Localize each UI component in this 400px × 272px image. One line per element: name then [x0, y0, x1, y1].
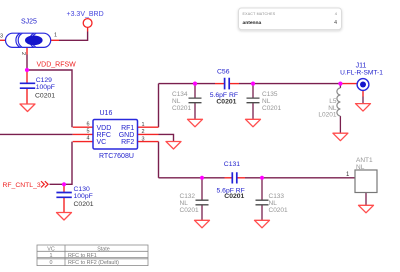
pin stub +3.3V_BRD	[87, 27, 89, 31]
svg-text:1: 1	[50, 253, 53, 259]
svg-text:C133: C133	[269, 193, 285, 200]
svg-text:6: 6	[86, 121, 89, 127]
svg-text:NL: NL	[262, 98, 271, 105]
wire: U16 pin2 GND to ground	[159, 134, 174, 141]
svg-text:RF_CNTL_3: RF_CNTL_3	[3, 182, 41, 189]
svg-text:1: 1	[54, 33, 57, 39]
svg-text:State: State	[97, 247, 110, 253]
connector J11 U.FL-R-SMT-1	[340, 62, 383, 90]
svg-text:3: 3	[142, 136, 145, 142]
wire: VDD_RFSW net to U16 pin6	[27, 70, 72, 127]
wire: U16 pin4 VC down and left to RF_CNTL_3	[50, 142, 73, 185]
pin stub J11 shield	[362, 91, 364, 97]
svg-text:VC: VC	[47, 247, 55, 253]
svg-text:C0201: C0201	[262, 105, 282, 112]
wire: RFC net from left edge to U16 pin5	[0, 133, 73, 135]
wire: U16 pin1 riser to top rail	[158, 84, 160, 128]
svg-text:RF2: RF2	[121, 139, 134, 146]
svg-text:RFC to RF2 (Default): RFC to RF2 (Default)	[68, 260, 119, 266]
pin stub U16 pin2	[138, 133, 159, 135]
svg-text:4: 4	[334, 20, 337, 26]
svg-text:C131: C131	[224, 161, 240, 168]
wire: U16 pin3 riser to bottom rail	[158, 142, 160, 178]
ground below C130	[57, 213, 72, 221]
pin stub C130 bottom	[63, 198, 65, 213]
svg-text:VDD: VDD	[97, 125, 112, 132]
svg-text:U16: U16	[100, 110, 113, 117]
svg-text:VDD_RFSW: VDD_RFSW	[37, 62, 77, 69]
svg-text:C0201: C0201	[74, 201, 94, 208]
capacitor C135 (NL)	[247, 91, 282, 112]
wire: C134 leads	[194, 84, 196, 119]
ground below C134	[188, 119, 203, 127]
svg-text:VC: VC	[97, 139, 107, 146]
svg-text:RF1: RF1	[121, 125, 134, 132]
pin stub C130 top	[63, 184, 65, 192]
svg-text:4: 4	[86, 136, 89, 142]
pin stub U16 pin6	[73, 126, 94, 128]
svg-text:0: 0	[50, 260, 53, 266]
pin stub SJ25 pin3	[0, 39, 6, 41]
ground below J11	[356, 104, 371, 112]
ground below L5	[333, 133, 348, 141]
svg-text:100pF: 100pF	[36, 84, 55, 91]
svg-text:2: 2	[20, 52, 26, 55]
pin stub U16 pin5	[73, 133, 94, 135]
wire: SJ25 pin1 to +3.3V_BRD	[59, 32, 88, 41]
pin stub C129 bottom	[26, 89, 28, 104]
pin stub C131 right	[237, 177, 245, 179]
wire: C132 leads	[201, 178, 203, 220]
junction node C130 tap	[62, 182, 66, 186]
pin stub U16 pin3	[138, 141, 159, 143]
svg-text:100pF: 100pF	[74, 193, 93, 200]
svg-text:GND: GND	[119, 132, 135, 139]
svg-text:C0201: C0201	[35, 93, 55, 100]
svg-text:NL: NL	[180, 200, 189, 207]
svg-text:C134: C134	[172, 91, 188, 98]
ground below C132	[195, 220, 210, 228]
junction node C133 tap	[260, 176, 264, 180]
junction node VDD_RFSW	[25, 68, 29, 72]
svg-text:C0201: C0201	[172, 105, 192, 112]
pin stub C56 left	[215, 83, 224, 85]
antenna ANT1	[346, 157, 377, 192]
pin stub C129 top	[26, 70, 28, 83]
svg-text:2: 2	[142, 129, 145, 135]
wire: C133 leads	[261, 178, 263, 220]
capacitor C134 (NL)	[172, 91, 202, 112]
search popup overlay	[239, 8, 342, 30]
svg-text:C0201: C0201	[269, 207, 289, 214]
svg-text:3: 3	[0, 34, 3, 40]
wire: L5 leads	[339, 84, 341, 133]
solder jumper SJ25	[0, 19, 57, 56]
svg-text:1: 1	[142, 122, 145, 128]
pin stub SJ25 pin1	[50, 39, 59, 41]
power symbol +3.3V_BRD	[67, 11, 104, 27]
svg-text:NL: NL	[172, 98, 181, 105]
inductor L5 (NL)	[318, 88, 340, 119]
svg-text:U.FL-R-SMT-1: U.FL-R-SMT-1	[340, 69, 383, 76]
wire: top rail left of C56	[159, 83, 216, 85]
wire: bottom rail right of C131	[245, 177, 355, 179]
ground below C129	[20, 104, 35, 112]
svg-text:SJ25: SJ25	[21, 19, 37, 26]
op-amp U16 (RF switch RTC7608U)	[86, 110, 144, 160]
ground below ANT1	[359, 205, 374, 213]
pin stub C131 left	[225, 177, 233, 179]
junction node C132 tap	[200, 176, 204, 180]
svg-text:C0201: C0201	[224, 193, 244, 200]
svg-text:NL: NL	[269, 200, 278, 207]
svg-text:C135: C135	[262, 91, 278, 98]
pin stub J11 pin1	[340, 83, 357, 85]
capacitor C132 (NL)	[180, 193, 209, 214]
net label RF_CNTL_3	[3, 181, 49, 189]
svg-text:C130: C130	[74, 186, 90, 193]
capacitor C131	[217, 161, 245, 200]
junction node L5/J11 tap	[338, 82, 342, 86]
svg-text:C0201: C0201	[216, 99, 236, 106]
svg-text:L0201: L0201	[318, 112, 336, 119]
ground below C133	[255, 220, 270, 228]
capacitor C130	[56, 186, 93, 208]
capacitor C56	[210, 69, 238, 106]
table: VC state truth table	[37, 245, 148, 266]
svg-text:C56: C56	[217, 69, 230, 76]
wire: C135 leads	[252, 84, 254, 119]
svg-text:RFC to RF1: RFC to RF1	[68, 253, 97, 259]
pin stub C56 right	[230, 83, 239, 85]
junction node C134 tap	[193, 82, 197, 86]
svg-text:C0201: C0201	[180, 207, 200, 214]
svg-text:RFC: RFC	[97, 132, 111, 139]
pin stub SJ25 pin2	[26, 48, 28, 55]
capacitor C129	[20, 77, 55, 100]
svg-text:J11: J11	[356, 62, 367, 69]
wire: ANT1 ground lead	[365, 193, 367, 206]
pin stub U16 pin1	[138, 126, 159, 128]
pin stub U16 pin4	[73, 141, 94, 143]
svg-text:5: 5	[86, 129, 89, 135]
ground below C135	[246, 119, 261, 127]
ground at U16 pin2	[166, 142, 181, 150]
svg-text:antenna: antenna	[243, 20, 262, 26]
junction node C135 tap	[251, 82, 255, 86]
wire: SJ25 pin2 down to junction	[26, 55, 28, 71]
wire: J11 ground lead	[362, 97, 364, 104]
svg-text:RTC7608U: RTC7608U	[99, 153, 134, 160]
svg-text:C132: C132	[180, 193, 196, 200]
wire: bottom rail left of C131	[159, 177, 225, 179]
capacitor C133 (NL)	[256, 193, 289, 214]
wire: top rail right of C56	[239, 83, 340, 85]
svg-text:EXACT MATCHES: EXACT MATCHES	[243, 12, 276, 16]
svg-text:+3.3V_BRD: +3.3V_BRD	[67, 11, 104, 18]
